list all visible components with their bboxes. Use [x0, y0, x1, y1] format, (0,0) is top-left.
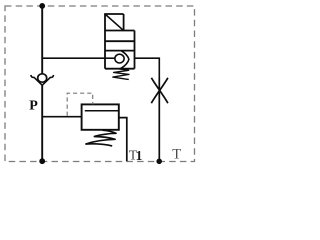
relief valve F1: spring [86, 130, 116, 146]
port label T1 [129, 148, 143, 164]
wire: T riser through shut-off to bottom junction [158, 78, 160, 162]
valve U1: 2-position cartridge valve body [104, 14, 134, 69]
check valve V1 (ball in seat, on P riser) [31, 74, 54, 85]
valve U1: closed-position diagonal [105, 14, 123, 30]
valve U1: spring [113, 69, 129, 80]
wire: valve U1 outlet to T riser [135, 58, 160, 77]
wire: P riser upper segment [41, 6, 43, 74]
svg-text:1: 1 [136, 148, 143, 163]
valve U1: internal check (ball on seat) [105, 51, 129, 69]
node: bottom boundary junction [39, 158, 45, 164]
node: top boundary junction [39, 3, 45, 9]
wire: branch from P riser to valve U1 [42, 57, 105, 59]
svg-text:P: P [29, 98, 38, 113]
wire: branch from P riser to relief valve F1 [42, 116, 81, 118]
relief valve F1: body [82, 104, 119, 129]
node: T bottom boundary junction [156, 159, 162, 165]
enclosure boundary (dashed manifold outline) [5, 6, 195, 162]
wire: relief valve drain to T1 [119, 118, 127, 162]
shut-off (throttle) valve on T riser [151, 78, 168, 103]
svg-text:T: T [172, 146, 181, 162]
relief valve F1: pilot line (dashed) [67, 93, 93, 116]
wire: P riser lower segment [41, 85, 43, 162]
